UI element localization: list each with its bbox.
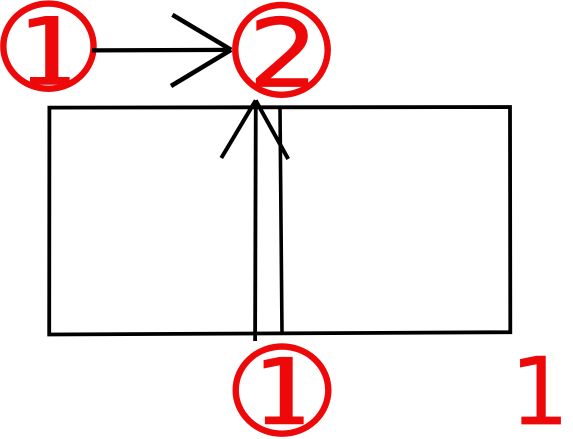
horizontal arrow from label 1 to label 2	[92, 15, 231, 86]
vertical divider line between the two cells	[280, 108, 282, 334]
vertical arrow pointing up at the divider top	[221, 100, 288, 341]
rectangle (two-cell table outline)	[49, 107, 510, 335]
red page number 1 (bottom-right)	[520, 356, 561, 425]
circled step label 1 (bottom-center), red circle	[236, 347, 329, 434]
circled step label 2 (top-center), red circle	[235, 5, 327, 95]
circled step label 1 (top-left), red circle	[3, 4, 93, 89]
